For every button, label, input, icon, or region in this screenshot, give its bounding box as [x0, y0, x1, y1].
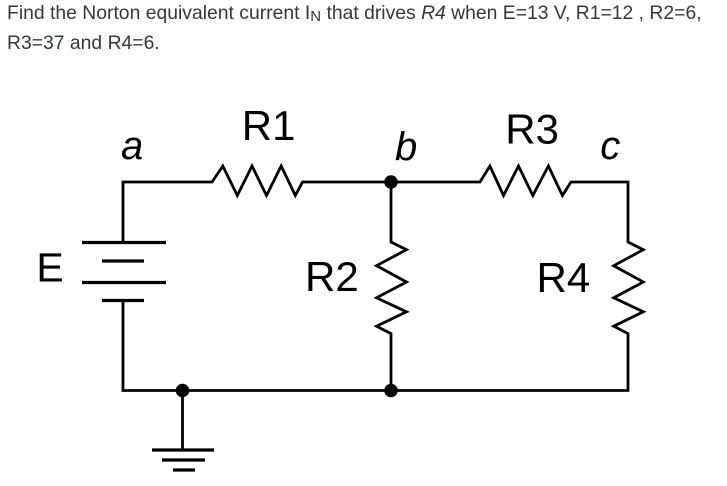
svg-text:R2: R2: [305, 253, 359, 300]
svg-text:R1: R1: [242, 102, 296, 149]
svg-text:b: b: [395, 125, 417, 169]
svg-text:R4: R4: [537, 254, 591, 301]
svg-text:E: E: [36, 245, 63, 291]
svg-text:R3: R3: [505, 106, 559, 153]
svg-text:a: a: [121, 124, 143, 168]
svg-text:c: c: [600, 124, 620, 168]
